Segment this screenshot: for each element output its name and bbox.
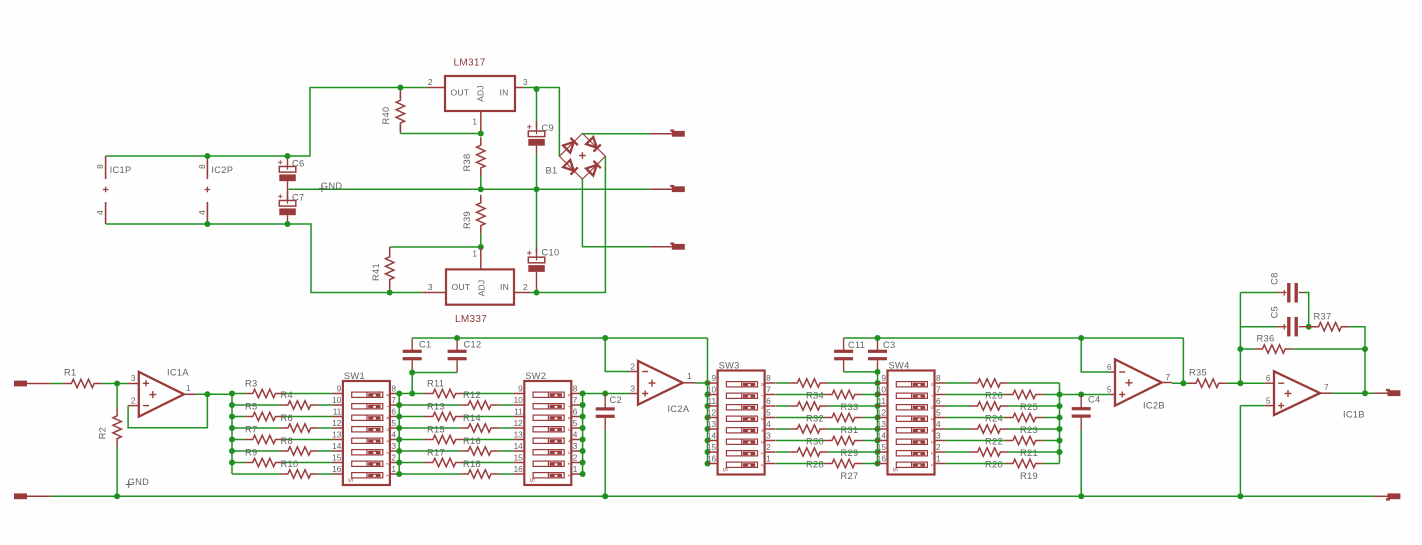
wire R28 to bus — [828, 451, 877, 453]
svg-text:R14: R14 — [463, 413, 481, 423]
SW1 pin 4 — [390, 439, 401, 441]
wire row to R24 — [946, 405, 970, 407]
op-amp IC1B — [1265, 382, 1274, 384]
SW1 pin 8 — [390, 393, 401, 395]
junction bus-SW2R row 4 — [580, 425, 586, 431]
svg-text:12: 12 — [707, 408, 717, 418]
junction bus-out row 5 — [1057, 426, 1063, 432]
wire row to R19 — [946, 463, 1005, 465]
svg-text:3: 3 — [566, 451, 572, 454]
junction C12 top — [454, 335, 460, 341]
svg-text:2: 2 — [391, 453, 396, 463]
SW2 pin 12 — [513, 427, 524, 429]
node GND mid rail — [289, 188, 650, 190]
svg-text:6: 6 — [391, 407, 396, 417]
node bus right of SW1 — [398, 394, 400, 475]
svg-text:OUT: OUT — [451, 88, 470, 98]
SW4 pin 5 — [935, 417, 946, 419]
svg-text:R25: R25 — [1020, 402, 1038, 412]
svg-text:13: 13 — [707, 419, 717, 429]
svg-text:R8: R8 — [281, 436, 293, 446]
SW4 pin 3 — [935, 440, 946, 442]
wire row to R13 — [399, 416, 425, 418]
svg-text:9: 9 — [711, 373, 716, 383]
svg-text:2: 2 — [573, 453, 578, 463]
resistor R37 — [1299, 326, 1311, 328]
svg-text:ADJ: ADJ — [476, 85, 486, 102]
resistor R7 — [245, 435, 284, 443]
svg-text:OUT: OUT — [452, 282, 471, 292]
svg-text:R1: R1 — [64, 368, 76, 378]
SW3 pin 14 — [707, 440, 718, 442]
regulator IC LM337 — [446, 269, 514, 304]
junction bus-SW3L row 6 — [705, 438, 711, 444]
SW3 pin 4 — [765, 428, 776, 430]
pad V- output — [650, 246, 672, 248]
junction bus-SW2R row 5 — [580, 437, 586, 443]
svg-text:11: 11 — [333, 407, 342, 417]
SW3 pin 12 — [707, 417, 718, 419]
svg-text:R37: R37 — [1314, 312, 1332, 322]
svg-text:R23: R23 — [1020, 425, 1038, 435]
SW2 pin 16 — [513, 473, 524, 475]
svg-text:8: 8 — [197, 164, 207, 169]
wire R23 to bus — [1044, 417, 1060, 419]
pad ground right — [1374, 495, 1387, 497]
capacitor C11 — [843, 338, 845, 350]
wire bridge top to pad — [582, 132, 649, 134]
wire row to R8 — [232, 450, 280, 452]
svg-text:3: 3 — [131, 373, 136, 383]
op-amp IC1A — [128, 383, 139, 385]
svg-text:10: 10 — [707, 385, 717, 395]
svg-text:SW4: SW4 — [889, 360, 910, 370]
SW1 pin 1 — [390, 473, 401, 475]
resistor R10 — [280, 470, 319, 478]
junction bus-out row 6 — [1057, 438, 1063, 444]
SW4 pin 6 — [935, 405, 946, 407]
LM337 pin 2 — [514, 292, 530, 294]
junction R1/R2 — [114, 381, 120, 387]
resistor R13 — [425, 412, 464, 420]
wire row to R4 — [232, 404, 280, 406]
SW4 pin 10 — [877, 394, 888, 396]
svg-text:C10: C10 — [542, 248, 560, 258]
wire row to R3 — [232, 393, 245, 395]
svg-text:R30: R30 — [806, 437, 824, 447]
svg-text:S: S — [721, 467, 728, 472]
wire IC1B output — [1320, 392, 1332, 394]
svg-text:1: 1 — [384, 474, 390, 477]
svg-text:2: 2 — [766, 442, 771, 452]
wire rail to IC2B pin6 — [1081, 338, 1110, 372]
junction bus-out row 3 — [1057, 403, 1063, 409]
SW2 pin 6 — [571, 416, 582, 418]
svg-text:11: 11 — [877, 396, 886, 406]
junction bus-SW1R row 3 — [396, 414, 402, 420]
wire R32 to bus — [828, 405, 877, 407]
wire row to R5 — [232, 416, 245, 418]
svg-text:R28: R28 — [806, 460, 824, 470]
svg-text:R40: R40 — [381, 107, 391, 125]
svg-text:13: 13 — [877, 419, 887, 429]
capacitor C12 — [456, 338, 458, 350]
svg-text:LM317: LM317 — [454, 58, 486, 69]
svg-text:R24: R24 — [985, 414, 1003, 424]
SW3 pin 6 — [765, 405, 776, 407]
junction C2 ground — [602, 493, 608, 499]
SW1 pin 11 — [332, 416, 343, 418]
wire R3 to SW1 — [284, 393, 332, 395]
svg-text:5: 5 — [766, 408, 771, 418]
svg-text:12: 12 — [877, 408, 887, 418]
svg-text:8: 8 — [573, 384, 578, 394]
svg-text:1: 1 — [186, 383, 191, 393]
svg-text:C7: C7 — [292, 193, 304, 203]
svg-text:GND: GND — [321, 181, 343, 191]
svg-text:1: 1 — [573, 464, 578, 474]
junction IC1B output — [1362, 390, 1368, 396]
svg-text:B1: B1 — [546, 166, 558, 176]
capacitor C10 — [536, 189, 538, 252]
junction bus-SW1R row 4 — [396, 425, 402, 431]
node bus left of SW4 — [877, 372, 879, 464]
resistor R23 — [1005, 413, 1044, 421]
svg-text:IN: IN — [500, 88, 509, 98]
svg-text:14: 14 — [707, 431, 717, 441]
svg-text:R10: R10 — [281, 459, 299, 469]
wire row to R16 — [399, 450, 460, 452]
wire R7 to SW1 — [284, 439, 332, 441]
svg-text:R27: R27 — [841, 471, 859, 481]
svg-text:15: 15 — [877, 442, 887, 452]
junction bus-SW1R row 2 — [396, 402, 402, 408]
wire R5 to SW1 — [284, 416, 332, 418]
svg-text:R26: R26 — [985, 391, 1003, 401]
svg-text:4: 4 — [566, 440, 572, 443]
wire row to R23 — [946, 417, 1005, 419]
wire row to R32 — [776, 405, 789, 407]
svg-text:13: 13 — [332, 430, 342, 440]
SW3 pin 15 — [707, 451, 718, 453]
svg-text:7: 7 — [936, 385, 941, 395]
resistor R3 — [245, 389, 284, 397]
junction IC2B output — [1180, 380, 1186, 386]
wire R6 to SW1 — [319, 427, 332, 429]
capacitor C7 — [287, 191, 289, 204]
svg-text:R12: R12 — [463, 390, 481, 400]
svg-text:2: 2 — [523, 282, 528, 292]
wire bridge bottom to pad — [582, 179, 649, 247]
svg-text:2: 2 — [384, 463, 390, 466]
junction bus-SW4L row 1 — [875, 380, 881, 386]
SW3 pin 1 — [765, 463, 776, 465]
wire R29 to bus — [863, 440, 878, 442]
svg-text:16: 16 — [514, 464, 524, 474]
svg-text:4: 4 — [384, 440, 390, 443]
svg-text:7: 7 — [573, 395, 578, 405]
wire C6-C7 string — [287, 181, 289, 200]
resistor R40 — [399, 88, 401, 99]
wire row to R14 — [399, 427, 460, 429]
svg-text:LM337: LM337 — [455, 314, 487, 325]
junction bus-out row 4 — [1057, 415, 1063, 421]
svg-text:8: 8 — [391, 384, 396, 394]
LM317 pin 2 — [427, 87, 445, 89]
svg-text:6: 6 — [1266, 373, 1271, 383]
svg-text:R29: R29 — [841, 448, 859, 458]
resistor R8 — [280, 447, 319, 455]
junction bus-SW1R row 6 — [396, 448, 402, 454]
svg-text:S: S — [346, 478, 353, 483]
junction bus-out row 7 — [1057, 449, 1063, 455]
SW2 pin 14 — [513, 450, 524, 452]
svg-text:4: 4 — [573, 430, 578, 440]
resistor R26 — [970, 379, 1009, 387]
junction C5/C8/R37 node — [1306, 324, 1312, 330]
svg-text:6: 6 — [929, 406, 935, 409]
junction bus-SW1L row 6 — [229, 448, 235, 454]
wire R22 to bus — [1008, 428, 1059, 430]
SW4 pin 8 — [935, 382, 946, 384]
svg-text:R18: R18 — [463, 459, 481, 469]
wire row to R27 — [776, 463, 824, 465]
resistor R18 — [460, 470, 499, 478]
pad signal output — [1374, 392, 1387, 394]
wire R16 to SW2 — [499, 450, 513, 452]
SW4 pin 16 — [877, 463, 888, 465]
junction bus-SW4L row 6 — [875, 438, 881, 444]
svg-text:3: 3 — [391, 441, 396, 451]
capacitor C9 — [536, 89, 538, 127]
wire R26 to bus — [1008, 382, 1059, 384]
svg-text:5: 5 — [566, 428, 572, 431]
junction C3 bottom — [875, 369, 881, 375]
pad signal input — [14, 381, 27, 387]
resistor R2 — [116, 384, 118, 408]
junction rail riser IC2B — [1078, 335, 1084, 341]
junction bus-SW4L row 7 — [875, 449, 881, 455]
svg-text:3: 3 — [523, 77, 528, 87]
junction bus-SW4L row 3 — [875, 403, 881, 409]
junction bus-SW1L row 4 — [229, 425, 235, 431]
node bus left of SW3 — [707, 338, 709, 464]
SW1 pin 9 — [332, 393, 343, 395]
node ladder bus left of SW1 — [231, 394, 233, 475]
junction rail riser — [602, 335, 608, 341]
junction bus-SW1R row 5 — [396, 437, 402, 443]
SW4 pin 7 — [935, 394, 946, 396]
wire SW2 bus to IC2A input — [583, 393, 630, 395]
SW2 pin 3 — [571, 450, 582, 452]
junction bus-SW1R row 7 — [396, 460, 402, 466]
wire IC1A output — [184, 393, 196, 395]
svg-text:5: 5 — [391, 418, 396, 428]
svg-text:R4: R4 — [281, 390, 293, 400]
resistor R19 — [1005, 459, 1044, 467]
svg-text:1: 1 — [391, 464, 396, 474]
op-amp IC2B — [1111, 371, 1116, 373]
svg-text:R7: R7 — [245, 425, 257, 435]
wire R20 to bus — [1008, 451, 1059, 453]
svg-text:C2: C2 — [610, 395, 622, 405]
SW2 pin 10 — [513, 404, 524, 406]
bridge rectifier B1 — [559, 133, 605, 179]
junction IC2P bottom — [204, 221, 210, 227]
junction C1 bottom — [409, 370, 415, 376]
wire row to R18 — [399, 473, 460, 475]
svg-text:5: 5 — [936, 408, 941, 418]
wire row to R31 — [776, 417, 824, 419]
svg-text:12: 12 — [332, 418, 342, 428]
wire R9 to SW1 — [284, 462, 332, 464]
svg-text:R5: R5 — [245, 402, 257, 412]
wire R8 to SW1 — [319, 450, 332, 452]
SW1 pin 15 — [332, 462, 343, 464]
svg-text:C1: C1 — [419, 340, 431, 350]
svg-text:1: 1 — [472, 249, 477, 259]
svg-text:IC2A: IC2A — [668, 404, 690, 414]
svg-text:C11: C11 — [848, 340, 865, 350]
svg-text:R38: R38 — [462, 154, 472, 172]
wire top rail — [106, 88, 427, 157]
pad V+ output — [650, 133, 672, 135]
wire R30 to bus — [828, 428, 877, 430]
svg-text:7: 7 — [766, 385, 771, 395]
wire LM337 IN to bridge — [530, 156, 605, 292]
svg-text:R19: R19 — [1020, 471, 1038, 481]
junction bus-SW2R row 2 — [580, 402, 586, 408]
switch SW2 — [524, 381, 572, 485]
wire IC2B output — [1162, 382, 1172, 384]
svg-text:IC1A: IC1A — [167, 368, 189, 378]
svg-text:SW3: SW3 — [719, 360, 740, 370]
junction IC2P top — [204, 153, 210, 159]
wire IC1B pin5 to ground rail — [1239, 406, 1241, 497]
wire R15 to SW2 — [464, 439, 514, 441]
wire IC2A output — [683, 382, 695, 384]
svg-text:4: 4 — [929, 429, 935, 432]
svg-text:3: 3 — [384, 451, 390, 454]
resistor R28 — [789, 448, 828, 456]
SW2 pin 5 — [571, 427, 582, 429]
wire IC2B feedback riser — [1182, 338, 1184, 383]
wire IC1A feedback — [128, 394, 207, 427]
SW1 pin 6 — [390, 416, 401, 418]
wire row to R15 — [399, 439, 425, 441]
wire R40 bottom to LM317 ADJ — [400, 133, 480, 135]
LM317 pin 1 — [480, 111, 482, 134]
svg-text:1: 1 — [566, 474, 572, 477]
resistor R22 — [970, 425, 1009, 433]
svg-text:11: 11 — [707, 396, 716, 406]
svg-text:4: 4 — [936, 419, 941, 429]
svg-text:15: 15 — [332, 453, 342, 463]
SW3 pin 2 — [765, 451, 776, 453]
svg-text:3: 3 — [759, 441, 765, 444]
wire R21 to bus — [1044, 440, 1060, 442]
svg-text:R33: R33 — [841, 402, 859, 412]
capacitor C3 — [877, 338, 879, 350]
svg-text:14: 14 — [332, 441, 342, 451]
resistor R25 — [1005, 390, 1044, 398]
svg-text:R15: R15 — [427, 425, 445, 435]
wire R18 to SW2 — [499, 473, 513, 475]
junction C9 top — [534, 86, 540, 92]
svg-text:9: 9 — [337, 384, 342, 394]
svg-text:15: 15 — [707, 442, 717, 452]
wire R12 to SW2 — [499, 404, 513, 406]
svg-text:3: 3 — [929, 441, 935, 444]
SW2 pin 7 — [571, 404, 582, 406]
resistor R34 — [789, 379, 828, 387]
SW4 pin 1 — [935, 463, 946, 465]
junction bus-SW1L row 5 — [229, 437, 235, 443]
svg-text:11: 11 — [514, 407, 523, 417]
resistor R4 — [280, 401, 319, 409]
svg-text:R20: R20 — [985, 460, 1003, 470]
connector IC1P — [105, 156, 107, 179]
wire input to R1 — [51, 383, 63, 385]
wire row to R30 — [776, 428, 789, 430]
SW2 pin 9 — [513, 393, 524, 395]
junction bus-SW2R row 7 — [580, 460, 586, 466]
junction bus-SW1R row 8 — [396, 471, 402, 477]
junction bus-SW4L row 5 — [875, 426, 881, 432]
junction IC2A output — [705, 380, 711, 386]
SW3 pin 10 — [707, 394, 718, 396]
resistor R6 — [280, 424, 319, 432]
wire rail to IC2A pin2 — [605, 338, 629, 372]
junction IC1A output — [204, 391, 210, 397]
junction bus-SW2R row 6 — [580, 448, 586, 454]
SW4 pin 14 — [877, 440, 888, 442]
svg-text:IN: IN — [500, 282, 509, 292]
SW4 pin 9 — [877, 382, 888, 384]
svg-text:R31: R31 — [841, 425, 859, 435]
wire C11 to C3 bottom — [844, 371, 878, 373]
junction R35/IC1B pin6 — [1237, 380, 1243, 386]
SW1 pin 10 — [332, 404, 343, 406]
svg-text:3: 3 — [630, 384, 635, 394]
node bottom ground rail — [51, 495, 1374, 497]
resistor R11 — [425, 389, 464, 397]
junction bus-out row 2 — [1057, 392, 1063, 398]
svg-text:IC1P: IC1P — [110, 165, 132, 175]
resistor R16 — [460, 447, 499, 455]
SW3 pin 8 — [765, 382, 776, 384]
regulator IC LM317 — [445, 76, 515, 111]
node bus right of SW4 block — [1059, 383, 1061, 464]
svg-text:7: 7 — [1166, 372, 1171, 382]
junction bus-SW3L row 4 — [705, 415, 711, 421]
svg-text:C4: C4 — [1088, 395, 1100, 405]
junction bus-SW1L row 2 — [229, 402, 235, 408]
svg-text:6: 6 — [936, 396, 941, 406]
junction R36 left — [1237, 346, 1243, 352]
wire bus to IC2B pin5 — [1060, 394, 1111, 396]
svg-text:R17: R17 — [427, 448, 445, 458]
svg-text:R36: R36 — [1257, 334, 1275, 344]
svg-text:8: 8 — [936, 373, 941, 383]
junction R36 right — [1362, 346, 1368, 352]
junction C4 top — [1078, 392, 1084, 398]
svg-text:IC1B: IC1B — [1343, 410, 1365, 420]
SW3 pin 3 — [765, 440, 776, 442]
junction R39 bottom — [478, 244, 484, 250]
wire row to R9 — [232, 462, 245, 464]
svg-text:1: 1 — [687, 371, 692, 381]
